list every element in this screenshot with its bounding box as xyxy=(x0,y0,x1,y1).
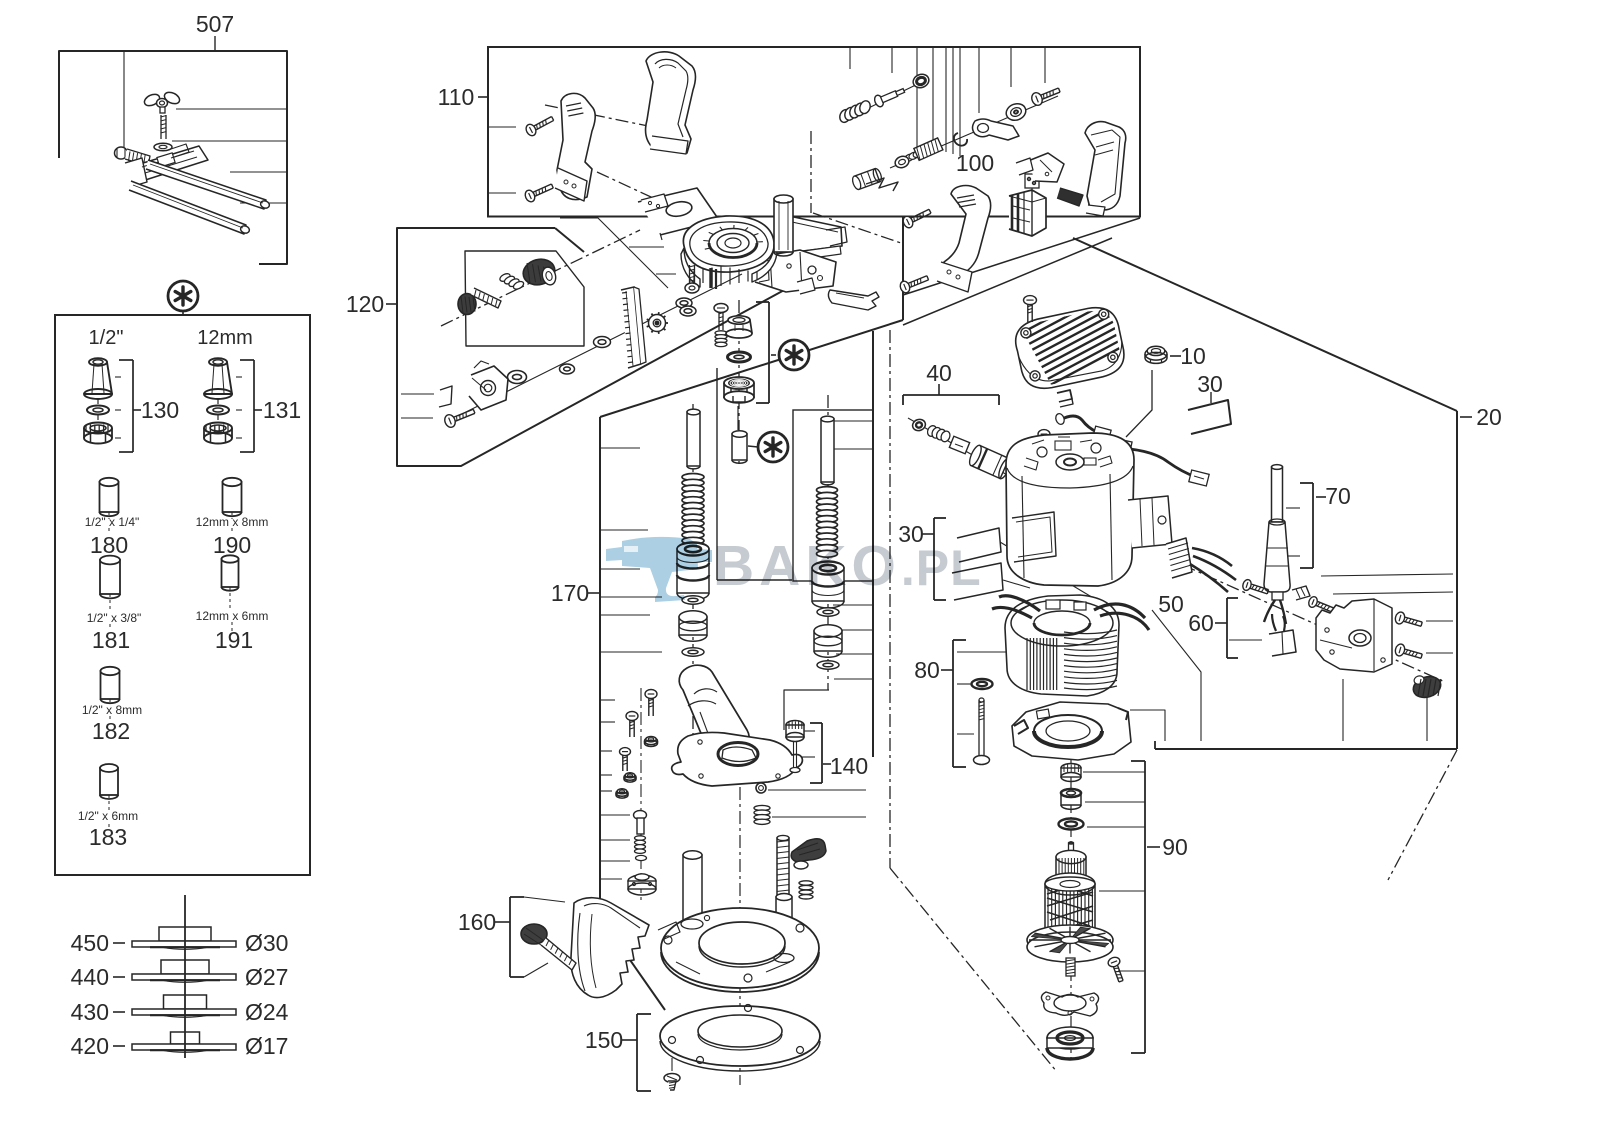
svg-text:450: 450 xyxy=(71,930,109,956)
svg-text:190: 190 xyxy=(213,532,251,558)
svg-text:90: 90 xyxy=(1162,834,1188,860)
svg-text:Ø24: Ø24 xyxy=(245,999,289,1025)
svg-text:60: 60 xyxy=(1188,610,1214,636)
svg-text:1/2" x 3/8": 1/2" x 3/8" xyxy=(87,611,142,625)
svg-text:50: 50 xyxy=(1158,591,1184,617)
svg-text:Ø17: Ø17 xyxy=(245,1033,288,1059)
svg-text:191: 191 xyxy=(215,627,253,653)
svg-text:1/2" x 6mm: 1/2" x 6mm xyxy=(78,809,138,823)
svg-text:10: 10 xyxy=(1180,343,1206,369)
svg-text:120: 120 xyxy=(346,291,384,317)
svg-text:100: 100 xyxy=(956,150,994,176)
svg-text:40: 40 xyxy=(926,360,952,386)
svg-text:1/2": 1/2" xyxy=(89,327,124,349)
svg-text:160: 160 xyxy=(458,909,496,935)
svg-text:12mm: 12mm xyxy=(197,327,253,349)
svg-text:12mm x 6mm: 12mm x 6mm xyxy=(196,609,269,623)
svg-text:30: 30 xyxy=(1197,371,1223,397)
svg-text:20: 20 xyxy=(1476,404,1502,430)
svg-text:420: 420 xyxy=(71,1033,109,1059)
svg-text:170: 170 xyxy=(551,580,589,606)
svg-text:180: 180 xyxy=(90,532,128,558)
svg-text:131: 131 xyxy=(263,397,301,423)
svg-text:181: 181 xyxy=(92,627,130,653)
svg-text:70: 70 xyxy=(1325,483,1351,509)
svg-text:Ø30: Ø30 xyxy=(245,930,288,956)
svg-text:110: 110 xyxy=(438,84,475,110)
svg-text:BAKO.PL: BAKO.PL xyxy=(713,534,982,598)
svg-text:150: 150 xyxy=(585,1027,623,1053)
svg-text:130: 130 xyxy=(141,397,179,423)
svg-text:80: 80 xyxy=(914,657,940,683)
svg-text:1/2" x 8mm: 1/2" x 8mm xyxy=(82,703,142,717)
svg-text:140: 140 xyxy=(830,753,868,779)
svg-text:1/2" x 1/4": 1/2" x 1/4" xyxy=(85,515,140,529)
svg-text:Ø27: Ø27 xyxy=(245,964,288,990)
svg-text:183: 183 xyxy=(89,824,127,850)
svg-text:182: 182 xyxy=(92,718,130,744)
svg-text:440: 440 xyxy=(71,964,109,990)
svg-text:430: 430 xyxy=(71,999,109,1025)
svg-text:12mm x 8mm: 12mm x 8mm xyxy=(196,515,269,529)
svg-text:507: 507 xyxy=(196,11,234,37)
